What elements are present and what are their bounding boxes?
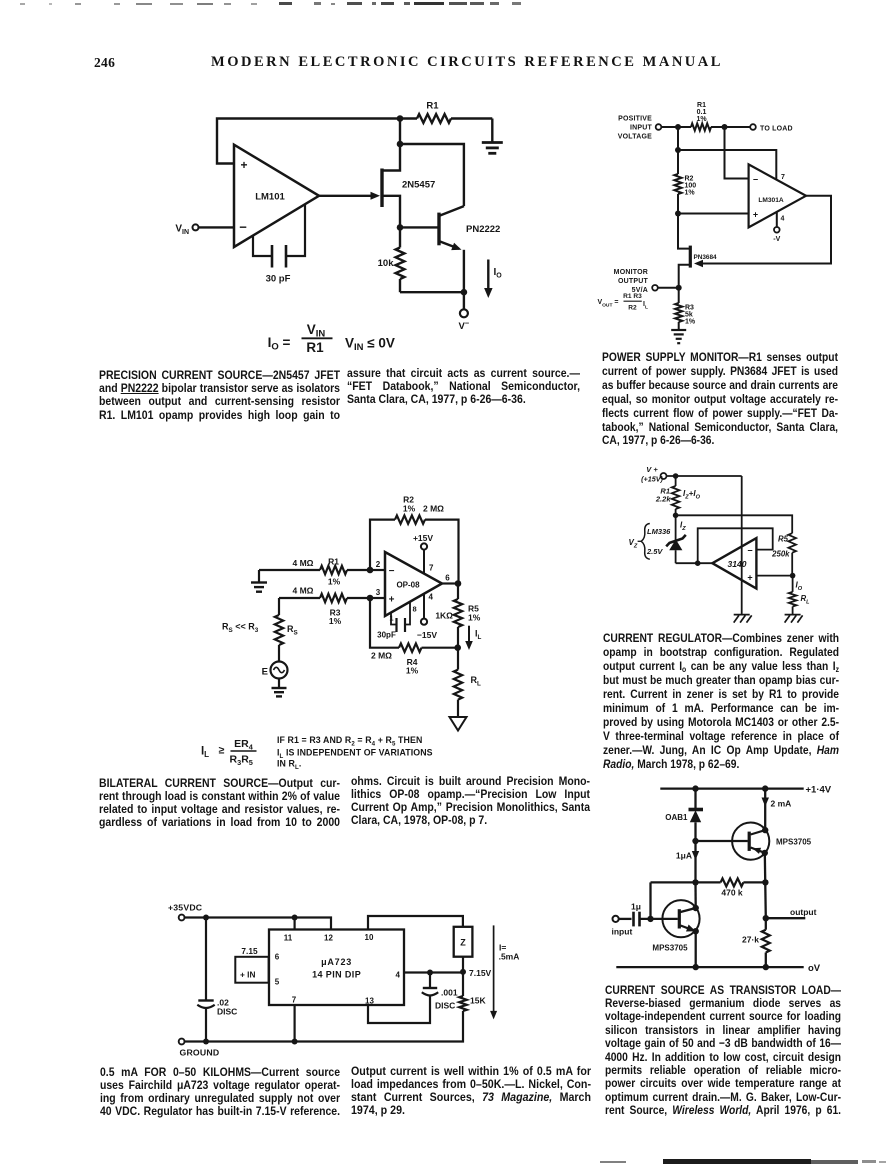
resistor R1 2.2k — [655, 476, 680, 515]
svg-text:IN RL​.: IN RL​. — [277, 759, 301, 772]
svg-text:2 mA: 2 mA — [771, 799, 792, 809]
wire op-amp output to JFET gate — [694, 196, 831, 267]
resistor R3 4 Mohm 1% — [279, 586, 370, 627]
zener Z in box — [454, 927, 473, 972]
ground arrow below RL — [450, 717, 467, 731]
node monitor output junction — [676, 285, 682, 291]
zener diode D1 LM336 2.5V — [646, 515, 686, 563]
wire pin 10 to zener Z — [368, 916, 463, 930]
current 1 uA arrow — [676, 851, 699, 861]
node collector dot lower — [693, 905, 699, 911]
svg-text:R1 R3: R1 R3 — [623, 293, 642, 300]
wire base riser to 470k node — [649, 882, 651, 919]
svg-text:100: 100 — [685, 183, 697, 190]
svg-text:+: + — [753, 209, 758, 219]
op-amp U1 3140 (points left) — [712, 538, 756, 589]
svg-text:R1: R1 — [328, 557, 339, 567]
IC U1 uA723 14 PIN DIP box — [269, 930, 404, 1006]
svg-text:1%: 1% — [403, 504, 416, 514]
svg-text:IL​: IL​ — [201, 746, 209, 760]
transistor Q2 PN2222 — [400, 206, 500, 292]
resistor R3 5k 1% — [675, 288, 696, 330]
svg-text:V +: V + — [646, 465, 658, 474]
svg-text:LM101: LM101 — [255, 192, 285, 203]
wire feedback output to inverting input — [698, 528, 773, 563]
svg-text:GROUND: GROUND — [180, 1048, 220, 1058]
svg-text:+: + — [240, 158, 247, 172]
svg-text:RS​: RS​ — [287, 624, 298, 637]
ground for R1 — [482, 119, 503, 154]
svg-text:7: 7 — [781, 174, 785, 181]
formula IL >= ER4/R3R5 — [201, 738, 257, 767]
wire top rail — [185, 918, 332, 930]
svg-text:2N5457: 2N5457 — [402, 180, 435, 191]
ground below RL — [785, 615, 803, 623]
node VIN input terminal — [175, 224, 198, 237]
svg-text:3: 3 — [376, 588, 381, 597]
wire node to R5 branch — [676, 515, 793, 533]
resistor R2 2 Mohm 1% feedback — [370, 495, 459, 584]
svg-text:−15V: −15V — [417, 630, 437, 640]
node output junction — [695, 560, 701, 566]
node output pin 6 — [442, 574, 461, 587]
svg-text:4 MΩ: 4 MΩ — [293, 586, 314, 596]
svg-text:15K: 15K — [470, 996, 486, 1006]
svg-text:4 MΩ: 4 MΩ — [293, 558, 314, 568]
svg-text:27·k: 27·k — [742, 935, 759, 945]
node positive input voltage terminal — [618, 116, 662, 141]
svg-text:output: output — [790, 907, 817, 917]
node +35VDC terminal — [168, 903, 203, 921]
label IO current — [796, 581, 803, 593]
scan artifact dashes — [20, 3, 25, 5]
svg-text:R1: R1 — [306, 340, 324, 355]
wire bottom rail — [185, 1011, 464, 1042]
node B junction (drain / collector rail) — [397, 141, 404, 148]
svg-text:-V: -V — [773, 236, 780, 243]
label RS much less than R3 — [222, 622, 259, 635]
wire node2 down to inverting input — [725, 127, 749, 179]
svg-text:−: − — [747, 546, 752, 556]
capacitor C2 .001 DISC — [422, 973, 458, 1011]
node input terminal — [612, 916, 633, 937]
svg-text:14 PIN DIP: 14 PIN DIP — [312, 970, 361, 980]
ground below source E — [272, 679, 287, 697]
svg-text:.5mA: .5mA — [499, 952, 520, 962]
wire zener to op-amp output — [676, 562, 713, 564]
svg-text:1%: 1% — [468, 613, 481, 623]
svg-text:.001: .001 — [441, 988, 458, 998]
node rail junction lower right — [763, 964, 769, 970]
svg-text:−: − — [239, 220, 247, 235]
svg-text:+15V: +15V — [413, 533, 433, 543]
box 7.15 +IN reference input — [235, 946, 268, 983]
svg-text:TO LOAD: TO LOAD — [760, 125, 793, 132]
svg-text:+1·4V: +1·4V — [806, 785, 832, 796]
svg-text:MPS3705: MPS3705 — [776, 838, 812, 847]
wire +1.4V top rail — [660, 785, 831, 796]
svg-text:RL​: RL​ — [471, 675, 482, 688]
resistor R2 10k — [378, 227, 405, 292]
svg-text:2.2k: 2.2k — [655, 495, 671, 504]
node base riser junction — [647, 916, 653, 922]
svg-text:0.1: 0.1 — [697, 109, 707, 116]
wire rail to collector upper — [764, 789, 766, 831]
svg-text:1%: 1% — [685, 319, 696, 326]
resistor R1 15K — [459, 972, 486, 1011]
node junction cap bottom rail — [203, 1039, 209, 1045]
wire VIN to op-amp inverting input — [199, 226, 235, 228]
node D output junction — [461, 289, 468, 296]
node junction pin 7 rail — [292, 1039, 298, 1045]
svg-text:1%: 1% — [328, 577, 341, 587]
node 470k right junction — [762, 879, 768, 885]
svg-text:R3​R5​: R3​R5​ — [230, 754, 253, 768]
resistor R1 4 Mohm 1% — [259, 557, 370, 587]
node IL junction — [454, 644, 461, 651]
transistor Q2 MPS3705 lower (NPN) — [652, 900, 699, 952]
svg-text:R1: R1 — [426, 101, 439, 112]
node 2 junction — [722, 124, 728, 130]
svg-text:2 MΩ: 2 MΩ — [371, 651, 392, 661]
svg-text:IL​: IL​ — [643, 301, 648, 311]
svg-text:MPS3705: MPS3705 — [652, 944, 688, 953]
node 1 junction — [675, 124, 681, 130]
resistor R1 0.1 1% — [678, 102, 750, 130]
svg-text:+: + — [389, 595, 395, 606]
wire op-amp supply line through triangle — [741, 476, 743, 615]
svg-text:E: E — [262, 667, 268, 678]
wire emitter to 0V rail — [695, 931, 697, 967]
resistor R4 2 Mohm 1% — [370, 598, 458, 676]
formula VOUT = R1 R3 / R2 IL — [597, 293, 648, 311]
resistor RL load — [454, 648, 481, 717]
node junction pin4/cap — [427, 970, 433, 976]
svg-text:OUTPUT: OUTPUT — [618, 278, 649, 285]
svg-text:10: 10 — [365, 933, 374, 942]
svg-text:OAB1: OAB1 — [665, 813, 688, 822]
svg-text:7: 7 — [292, 996, 297, 1005]
svg-text:1KΩ: 1KΩ — [435, 611, 453, 621]
wire node4 to non-inverting input — [678, 213, 749, 215]
wire input to node1 — [661, 126, 678, 128]
wire 0V bottom rail — [616, 963, 821, 974]
node collector junction upper — [762, 827, 768, 833]
svg-text:VOLTAGE: VOLTAGE — [618, 133, 652, 140]
svg-text:MONITOR: MONITOR — [614, 269, 648, 276]
svg-text:6: 6 — [275, 953, 280, 962]
capacitor C1 30 pF compensation — [253, 205, 305, 285]
svg-text:LM301A: LM301A — [758, 197, 784, 204]
svg-text:R2: R2 — [628, 305, 637, 312]
ground for R3 — [671, 330, 686, 343]
svg-text:VIN​ ≤ 0V: VIN​ ≤ 0V — [345, 336, 395, 354]
note IF R1 = R3 text — [277, 735, 433, 771]
svg-text:1μ: 1μ — [631, 902, 641, 912]
wire node A down to node B — [399, 119, 401, 145]
svg-text:VOUT​ =: VOUT​ = — [597, 299, 618, 309]
node emitter junction upper — [762, 850, 768, 856]
svg-text:RS​ << R3​: RS​ << R3​ — [222, 622, 259, 635]
wire bottom rail to output node — [400, 291, 464, 293]
svg-text:+ IN: + IN — [240, 970, 255, 980]
svg-text:2 MΩ: 2 MΩ — [423, 504, 444, 514]
resistor R5 1K 1% — [435, 584, 480, 648]
capacitor C1 1u input — [631, 902, 678, 927]
pin 4 and -V terminal — [773, 213, 784, 244]
svg-text:ER4​: ER4​ — [234, 738, 254, 752]
svg-text:470 k: 470 k — [721, 888, 743, 898]
svg-text:4: 4 — [781, 216, 785, 223]
capacitor C1 30pF pins 1-8 — [377, 602, 417, 640]
label IZ+IO current — [683, 489, 701, 501]
node output junction — [763, 915, 769, 921]
pin 11 label — [284, 934, 293, 943]
svg-text:R5: R5 — [778, 535, 789, 544]
svg-text:4: 4 — [429, 593, 434, 602]
svg-text:6: 6 — [445, 574, 450, 583]
current 2 mA arrow — [762, 798, 792, 809]
svg-text:1μA: 1μA — [676, 851, 692, 861]
svg-text:7: 7 — [429, 564, 434, 573]
wire feedback from non-inverting input up to top rail — [217, 119, 398, 164]
svg-text:R2: R2 — [685, 176, 694, 183]
resistor R5 250k — [771, 533, 796, 575]
svg-text:11: 11 — [284, 934, 293, 943]
svg-text:2: 2 — [376, 560, 381, 569]
svg-text:DISC: DISC — [435, 1001, 455, 1011]
wire pin 13 to cap — [368, 996, 430, 1024]
diode D1 OA81 germanium — [665, 789, 703, 883]
wire V+ rail — [667, 475, 742, 477]
svg-text:PN2222: PN2222 — [466, 224, 500, 235]
svg-text:+: + — [747, 573, 752, 583]
running head — [211, 54, 723, 71]
svg-text:3140: 3140 — [728, 559, 747, 569]
svg-text:VIN​: VIN​ — [175, 224, 189, 237]
resistor RL load — [789, 576, 810, 615]
svg-text:5: 5 — [275, 978, 280, 987]
node junction cap branch — [203, 915, 209, 921]
svg-text:oV: oV — [808, 963, 821, 974]
wire node B to PN2222 collector riser — [400, 144, 464, 206]
node -15V terminal — [417, 593, 437, 641]
node V+ terminal — [641, 465, 666, 484]
svg-text:PN3684: PN3684 — [694, 254, 718, 261]
svg-text:12: 12 — [324, 934, 333, 943]
ground at R1 input — [251, 570, 267, 592]
node non-inverting input junction — [367, 588, 385, 601]
svg-text:Z: Z — [460, 938, 466, 948]
wire emitter to output node — [765, 853, 766, 918]
node R1 top junction — [673, 473, 679, 479]
svg-text:5k: 5k — [685, 312, 693, 319]
node TO LOAD terminal — [750, 124, 793, 132]
wire node3 to pin 7 of op-amp — [678, 150, 785, 181]
current IO arrow — [484, 260, 502, 299]
node 7.15V junction — [460, 968, 492, 978]
resistor R2 100 1% — [674, 150, 696, 214]
svg-text:−: − — [753, 174, 758, 184]
resistor R1 470k — [651, 878, 766, 897]
node base junction upper transistor — [692, 838, 698, 844]
svg-text:1%: 1% — [329, 616, 342, 626]
transistor Q1 PN3684 JFET — [678, 214, 717, 286]
svg-text:RL​: RL​ — [801, 594, 811, 606]
svg-text:1%: 1% — [685, 190, 696, 197]
node rail right junction — [762, 785, 768, 791]
svg-text:OP-08: OP-08 — [396, 581, 420, 590]
node junction pin 11 — [292, 915, 298, 921]
svg-text:8: 8 — [413, 605, 417, 614]
pin 13 label — [365, 997, 374, 1006]
wire pin 4 to node — [404, 971, 463, 973]
current IL arrow — [465, 626, 481, 650]
node emitter dot lower — [693, 928, 699, 934]
wire pin 11 riser — [294, 918, 296, 930]
svg-text:POSITIVE: POSITIVE — [618, 116, 652, 123]
svg-text:1: 1 — [389, 614, 393, 623]
node rail junction lower left — [693, 964, 699, 970]
svg-text:μA723: μA723 — [321, 957, 352, 967]
svg-text:−: − — [389, 566, 395, 577]
current arrow I = .5mA — [490, 925, 519, 1019]
pin 10 label — [365, 933, 374, 942]
svg-text:DISC: DISC — [217, 1007, 237, 1017]
svg-text:VIN​: VIN​ — [307, 322, 326, 340]
svg-text:7.15V: 7.15V — [469, 968, 492, 978]
node +15V terminal — [413, 533, 434, 574]
node IZ junction — [673, 513, 686, 533]
svg-text:INPUT: INPUT — [630, 125, 653, 132]
op-amp U1 LM101 triangle — [234, 145, 319, 247]
page number 246 — [94, 55, 115, 71]
svg-text:LM336: LM336 — [647, 527, 671, 536]
wire pin 7 riser — [294, 1005, 296, 1042]
svg-text:≥: ≥ — [219, 745, 225, 757]
node 470k left junction — [692, 879, 698, 885]
node C source junction — [397, 224, 404, 231]
node inverting input junction — [367, 560, 385, 573]
node V- output terminal — [459, 292, 470, 332]
capacitor C1 .02 DISC — [197, 918, 237, 1042]
svg-text:IO​ =: IO​ = — [268, 335, 291, 353]
svg-text:30 pF: 30 pF — [266, 274, 291, 285]
resistor R1 top — [400, 101, 492, 123]
svg-text:IO​: IO​ — [796, 581, 803, 593]
svg-text:IZ​: IZ​ — [680, 521, 686, 533]
svg-text:V−: V− — [459, 319, 470, 333]
node rail left junction — [692, 785, 698, 791]
wire output — [766, 907, 817, 918]
svg-text:VZ​: VZ​ — [629, 538, 638, 550]
resistor RS source resistance — [275, 598, 298, 645]
svg-text:7.15: 7.15 — [241, 946, 258, 956]
svg-text:R3: R3 — [685, 305, 694, 312]
svg-text:IO​: IO​ — [494, 267, 503, 280]
node 4 junction — [675, 211, 681, 217]
wire node to collector lower — [694, 882, 697, 908]
ground below supply line — [734, 615, 752, 623]
svg-text:IL​: IL​ — [475, 629, 482, 642]
op-amp U1 LM301A — [749, 164, 806, 227]
node GROUND terminal — [179, 1039, 220, 1058]
pin 4 label — [396, 971, 401, 980]
transistor Q1 MPS3705 upper (PNP) — [696, 823, 812, 860]
svg-text:1%: 1% — [696, 116, 707, 123]
pin 6 label — [275, 953, 280, 962]
node 3 junction — [675, 147, 681, 153]
svg-text:1%: 1% — [406, 666, 419, 676]
node A top-left junction — [397, 115, 404, 122]
op-amp U1 OP-08 — [385, 552, 442, 616]
svg-text:10k: 10k — [378, 258, 395, 269]
pin 5 label — [275, 978, 280, 987]
wire node1 down to node3 — [677, 127, 679, 150]
svg-text:IF R1 = R3 AND R2​ = R4​ + R5​: IF R1 = R3 AND R2​ = R4​ + R5​ THEN — [277, 735, 422, 748]
node monitor output terminal — [614, 269, 679, 294]
svg-text:2.5V: 2.5V — [646, 547, 663, 556]
svg-text:250k: 250k — [771, 550, 790, 559]
svg-text:4: 4 — [396, 971, 401, 980]
resistor R2 27k — [742, 918, 770, 967]
pin 12 label — [324, 934, 333, 943]
wire op-amp output to JFET gate — [319, 192, 380, 200]
svg-text:IZ​+IO​: IZ​+IO​ — [683, 489, 701, 501]
source E sine generator — [262, 645, 288, 679]
pin 7 label — [292, 996, 297, 1005]
transistor Q1 2N5457 JFET — [382, 144, 435, 225]
svg-text:13: 13 — [365, 997, 374, 1006]
svg-text:30pF: 30pF — [377, 631, 396, 640]
node non-inverting junction — [756, 573, 795, 579]
label VZ with brace — [629, 524, 650, 560]
svg-text:input: input — [612, 927, 633, 937]
svg-text:+35VDC: +35VDC — [168, 903, 203, 913]
svg-text:(+15V): (+15V) — [641, 475, 663, 484]
svg-text:R1: R1 — [697, 102, 706, 109]
formula IO = VIN/R1 — [268, 322, 395, 355]
